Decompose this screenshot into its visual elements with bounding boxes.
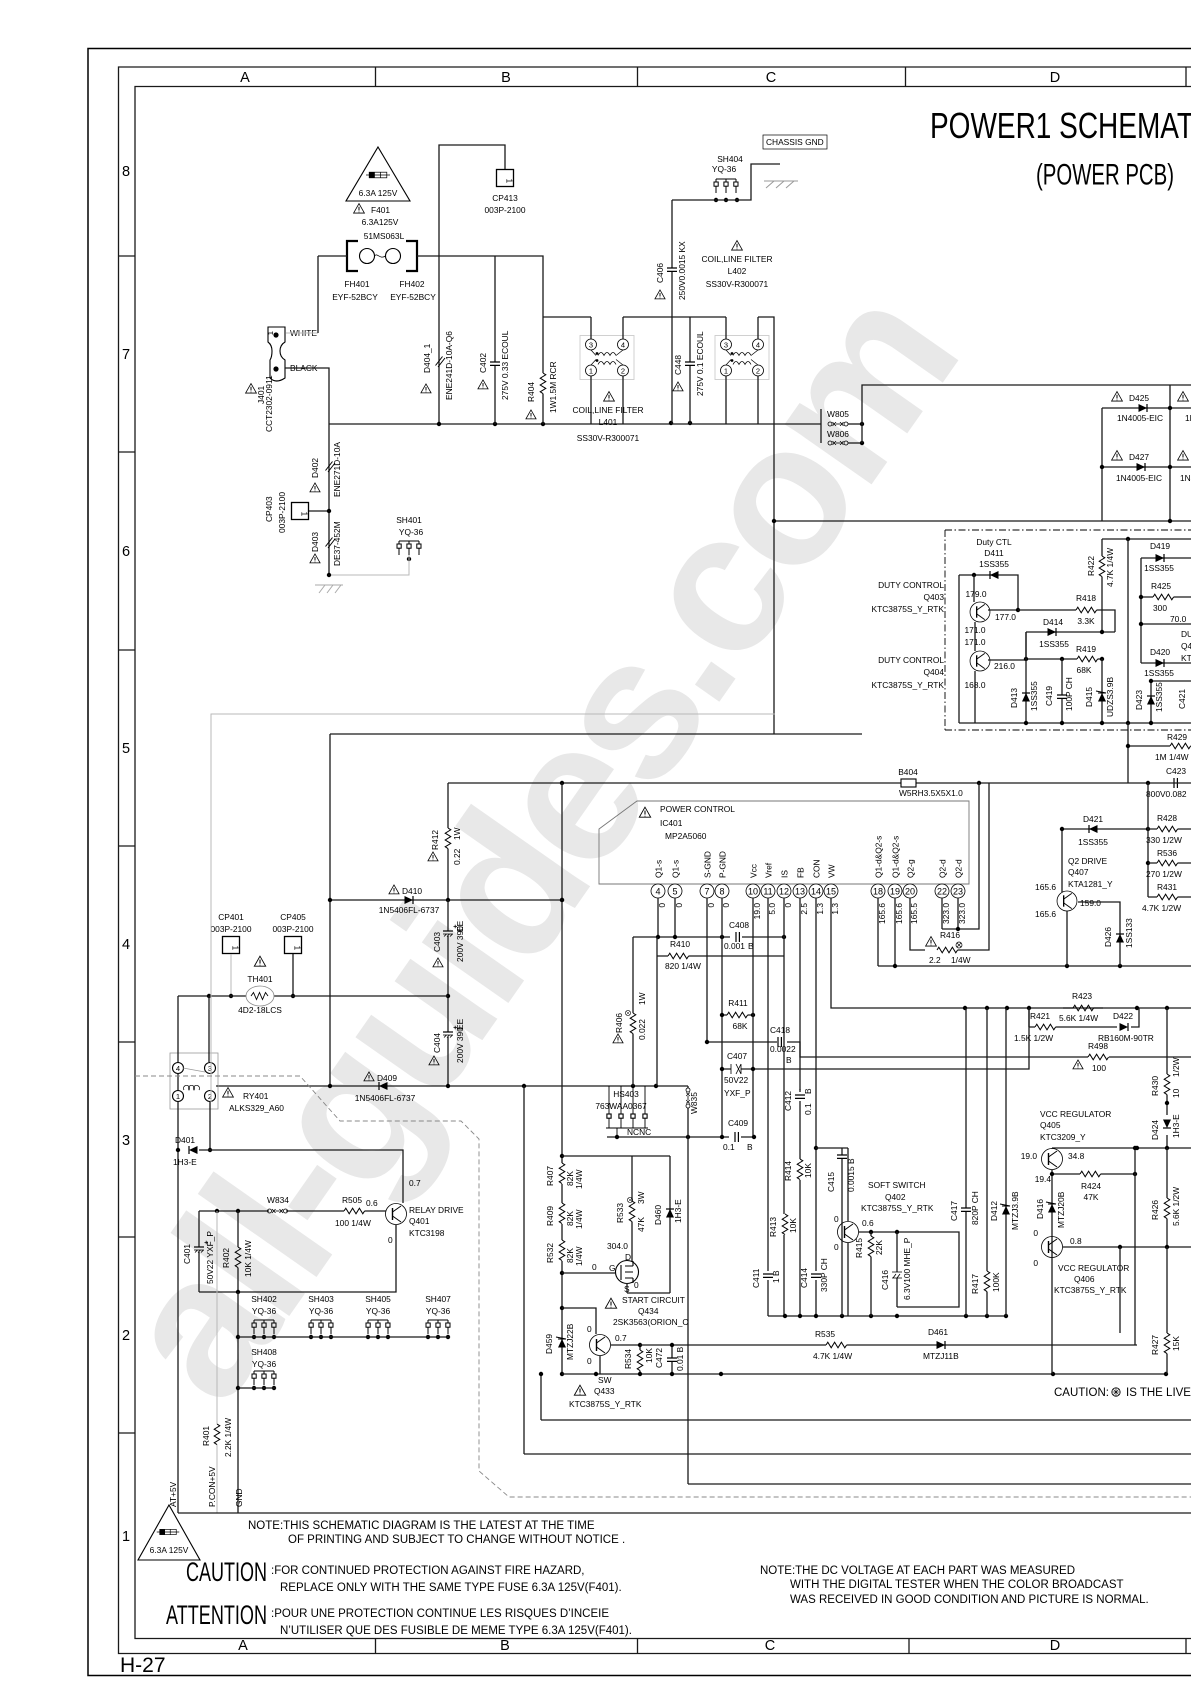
connector CP401 (223, 937, 240, 954)
fuse rating triangle bottom left (138, 1505, 200, 1560)
svg-text:CAUTION:: CAUTION: (1054, 1387, 1109, 1399)
svg-text:FH401: FH401 (344, 279, 369, 289)
svg-text:C404: C404 (432, 1033, 442, 1053)
svg-text:1SS355: 1SS355 (1039, 639, 1069, 649)
svg-text:ATTENTION: ATTENTION (166, 1600, 267, 1630)
svg-text:1SS355: 1SS355 (1154, 682, 1164, 712)
wire soft bus (768, 1315, 1006, 1317)
pin 18 Q1-d&Q2-s (871, 884, 885, 898)
wire pin22/23 join (942, 783, 979, 929)
svg-text:Q2-d: Q2-d (954, 859, 964, 878)
svg-text:100 1/4W: 100 1/4W (335, 1218, 371, 1228)
svg-text:50V22: 50V22 (724, 1075, 749, 1085)
wire hot rail down (774, 520, 1191, 522)
svg-text:Q4: Q4 (1181, 641, 1191, 651)
diode D425 (1102, 385, 1191, 521)
svg-text:EYF-52BCY: EYF-52BCY (332, 292, 378, 302)
diode D460 (627, 1156, 670, 1293)
label START CIRCUIT (605, 1298, 616, 1308)
svg-text:YQ-36: YQ-36 (252, 1359, 277, 1369)
jumper W805 (820, 409, 822, 443)
transistor Q406 (1042, 1237, 1063, 1258)
svg-text:R412: R412 (430, 830, 440, 850)
svg-text:4: 4 (176, 1064, 180, 1073)
transistor Q401 relay drive (386, 1204, 407, 1225)
ground symbol (315, 585, 343, 593)
svg-text:179.0: 179.0 (966, 589, 987, 599)
svg-text:L402: L402 (728, 266, 747, 276)
zener D412 (1005, 1008, 1007, 1316)
svg-text:003P-2100: 003P-2100 (277, 492, 287, 533)
svg-text:0: 0 (587, 1356, 592, 1366)
svg-text:L401: L401 (599, 417, 618, 427)
svg-text:47K: 47K (1084, 1192, 1099, 1202)
svg-text:YQ-36: YQ-36 (309, 1306, 334, 1316)
resistor R415 (870, 1232, 872, 1316)
svg-text:C403: C403 (432, 932, 442, 952)
svg-text:11: 11 (763, 887, 772, 897)
svg-text:R401: R401 (201, 1426, 211, 1446)
svg-text:R421: R421 (1030, 1011, 1050, 1021)
wire relay drive top (199, 1150, 403, 1203)
svg-text:10K: 10K (788, 1218, 798, 1233)
resistor R429 (1128, 723, 1191, 746)
frame column ticks bottom (376, 1639, 1187, 1654)
svg-text:SH404: SH404 (717, 154, 743, 164)
resistor R422 (1101, 539, 1103, 632)
svg-text:RELAY DRIVE: RELAY DRIVE (409, 1205, 464, 1215)
svg-text:C415: C415 (826, 1172, 836, 1192)
svg-text:D422: D422 (1113, 1011, 1133, 1021)
svg-text:B: B (747, 1142, 753, 1152)
svg-text:34.8: 34.8 (1068, 1151, 1085, 1161)
svg-text:0.1: 0.1 (723, 1142, 735, 1152)
svg-text:SH403: SH403 (308, 1294, 334, 1304)
svg-text:0.01 B: 0.01 B (675, 1346, 685, 1371)
svg-text:ENE241D-10A-Q6: ENE241D-10A-Q6 (444, 331, 454, 400)
jumper W834 (268, 1209, 288, 1213)
svg-text:Q1-d&Q2-s: Q1-d&Q2-s (874, 836, 884, 878)
svg-text:C419: C419 (1044, 686, 1054, 706)
svg-text:MTZJ11B: MTZJ11B (923, 1351, 959, 1361)
svg-text:Q401: Q401 (409, 1216, 430, 1226)
svg-text:MTZJ20B: MTZJ20B (1056, 1191, 1066, 1228)
zener D416 (1046, 1202, 1056, 1213)
wire R410 branch down (656, 956, 658, 1086)
svg-text:820 1/4W: 820 1/4W (665, 961, 701, 971)
svg-text:NOTE:THIS SCHEMATIC DIAGRAM IS: NOTE:THIS SCHEMATIC DIAGRAM IS THE LATES… (248, 1520, 595, 1532)
svg-text:3: 3 (122, 1133, 130, 1149)
label L402 (732, 241, 743, 251)
svg-text:Q404: Q404 (924, 667, 945, 677)
svg-text:R407: R407 (545, 1166, 555, 1186)
label J401 (246, 384, 257, 394)
svg-text:6.3A125V: 6.3A125V (362, 217, 399, 227)
wire pin4/5 net (633, 898, 784, 937)
svg-text:D419: D419 (1150, 541, 1170, 551)
diode D425b cut (1178, 392, 1189, 402)
transistor Q402 (838, 1222, 859, 1243)
resistor R412 (447, 783, 449, 900)
svg-text:1W: 1W (637, 992, 647, 1005)
svg-text:P-GND: P-GND (718, 851, 728, 878)
wire pin18/19 (878, 898, 1191, 966)
svg-text:C414: C414 (799, 1268, 809, 1288)
label POWER CONTROL (639, 807, 650, 817)
svg-text:A: A (238, 1638, 248, 1654)
coil line filter L401 (580, 336, 634, 380)
resistor R417 (986, 1008, 988, 1316)
resistor R534 (639, 1345, 641, 1374)
svg-text:0: 0 (1033, 1258, 1038, 1268)
svg-text:YQ-36: YQ-36 (399, 527, 424, 537)
svg-text:R413: R413 (768, 1217, 778, 1237)
zener D459 (556, 1337, 566, 1348)
svg-text:1N4005-EIC: 1N4005-EIC (1117, 413, 1163, 423)
svg-text:FB: FB (796, 867, 806, 878)
mosfet Q434 start (616, 1261, 639, 1284)
transistor Q403 (970, 602, 990, 622)
svg-text:70.0: 70.0 (1170, 614, 1187, 624)
resistor R535 (826, 1342, 847, 1348)
svg-text:SH401: SH401 (396, 515, 422, 525)
svg-text:165.6: 165.6 (1035, 882, 1056, 892)
wire SH401 to ground (329, 555, 409, 575)
wire bottom rail at+5v (178, 1512, 1191, 1514)
svg-text:D413: D413 (1009, 688, 1019, 708)
svg-text:WAS RECEIVED IN GOOD CONDITION: WAS RECEIVED IN GOOD CONDITION AND PICTU… (790, 1594, 1149, 1606)
svg-text:4: 4 (655, 887, 660, 897)
svg-text:KT: KT (1181, 653, 1191, 663)
relay RY401 (170, 1053, 218, 1109)
svg-text:100: 100 (1092, 1063, 1106, 1073)
svg-text:C406: C406 (655, 263, 665, 283)
svg-text:R425: R425 (1151, 581, 1171, 591)
svg-text:1/4W: 1/4W (574, 1209, 584, 1229)
svg-text:Q406: Q406 (1074, 1274, 1095, 1284)
wire rail2 (541, 1374, 1191, 1420)
svg-text:1SS355: 1SS355 (1029, 681, 1039, 711)
svg-text:50V22 YXF_P: 50V22 YXF_P (205, 1231, 215, 1284)
svg-text:10K: 10K (803, 1163, 813, 1178)
svg-text:NOTE:THE DC VOLTAGE AT EACH PA: NOTE:THE DC VOLTAGE AT EACH PART WAS MEA… (760, 1565, 1075, 1577)
wire base chain (199, 1210, 386, 1212)
svg-text:Q407: Q407 (1068, 867, 1089, 877)
fusible link B404 (448, 782, 1191, 784)
svg-text:1SS355: 1SS355 (1144, 563, 1174, 573)
svg-text:A: A (240, 70, 250, 86)
wire rail4 (688, 1483, 1191, 1485)
svg-text:800V0.082: 800V0.082 (1146, 789, 1187, 799)
svg-text:Q403: Q403 (924, 592, 945, 602)
svg-text:SOFT SWITCH: SOFT SWITCH (868, 1180, 926, 1190)
svg-text:H-27: H-27 (120, 1654, 166, 1677)
capacitor C416 (896, 1232, 898, 1307)
svg-text:0.8: 0.8 (1070, 1236, 1082, 1246)
wire drive emitter loop (199, 1225, 396, 1292)
svg-text:275V 0.1 ECOUL: 275V 0.1 ECOUL (695, 331, 705, 396)
wire duty right (1141, 623, 1191, 625)
svg-text:304.0: 304.0 (607, 1241, 628, 1251)
svg-text:KTC3875S_Y_RTK: KTC3875S_Y_RTK (872, 680, 945, 690)
svg-text:2SK3563(ORION_C: 2SK3563(ORION_C (613, 1317, 688, 1327)
wire line-filter top (543, 317, 774, 734)
svg-text:7: 7 (122, 347, 130, 363)
svg-text:DUTY CONTROL: DUTY CONTROL (878, 655, 944, 665)
svg-text:0.1: 0.1 (803, 1103, 813, 1115)
svg-text:R429: R429 (1167, 732, 1187, 742)
wire pin13 (799, 898, 801, 1316)
svg-text:D: D (625, 1252, 631, 1262)
resistor R411 (722, 1014, 753, 1016)
label L401 (604, 392, 615, 402)
svg-text:R409: R409 (545, 1206, 555, 1226)
svg-text:5: 5 (122, 741, 130, 757)
diode D424 (1166, 1103, 1168, 1148)
svg-text:165.6: 165.6 (1035, 909, 1056, 919)
svg-text:Q1-s: Q1-s (654, 860, 664, 878)
chassis ground hatch (764, 181, 798, 188)
resistor R427 (1166, 1247, 1168, 1374)
svg-text:UDZS3.9B: UDZS3.9B (1105, 677, 1115, 717)
svg-text:SH407: SH407 (425, 1294, 451, 1304)
coil line filter L402 (715, 336, 769, 380)
svg-text:R406: R406 (614, 1013, 624, 1033)
wire rect block left (330, 733, 862, 735)
svg-text:4D2-18LCS: 4D2-18LCS (238, 1005, 282, 1015)
svg-text:1SS133: 1SS133 (1124, 918, 1134, 948)
label RY401 (223, 1088, 234, 1098)
svg-text:216.0: 216.0 (994, 661, 1015, 671)
svg-text:D: D (1050, 70, 1060, 86)
diode D421 (1089, 825, 1098, 833)
resistor R426 (1120, 1148, 1167, 1333)
wire white lead (286, 332, 318, 334)
svg-text:1M 1/4W: 1M 1/4W (1155, 752, 1189, 762)
transistor Q407 (1057, 891, 1077, 911)
svg-text:NCNC: NCNC (627, 1127, 651, 1137)
svg-text:19.4: 19.4 (1035, 1174, 1052, 1184)
svg-text:IC401: IC401 (660, 818, 683, 828)
svg-text:1: 1 (176, 1092, 180, 1101)
svg-text:KTC3875S_Y_RTK: KTC3875S_Y_RTK (861, 1203, 934, 1213)
IC401 power control box (599, 801, 969, 884)
svg-text:200V 390: 200V 390 (455, 1027, 465, 1063)
svg-text:10K: 10K (644, 1348, 654, 1363)
svg-text:D411: D411 (984, 548, 1004, 558)
svg-text:B: B (500, 1638, 510, 1654)
svg-text:R402: R402 (221, 1248, 231, 1268)
svg-text:R536: R536 (1157, 848, 1177, 858)
svg-text:OF PRINTING AND SUBJECT TO CHA: OF PRINTING AND SUBJECT TO CHANGE WITHOU… (288, 1534, 625, 1546)
capacitor C409 (735, 1132, 738, 1142)
diode D423 (1151, 681, 1191, 723)
svg-text:Q434: Q434 (638, 1306, 659, 1316)
svg-text:Q2-d: Q2-d (938, 859, 948, 878)
svg-text:0: 0 (587, 1324, 592, 1334)
diode D420 (1141, 662, 1191, 664)
svg-text:275V 0.33 ECOUL: 275V 0.33 ECOUL (500, 330, 510, 400)
wire rectifier feed (862, 385, 1191, 443)
svg-text:R418: R418 (1076, 593, 1096, 603)
wire duty top rail (1102, 538, 1191, 540)
svg-text:Q1-s: Q1-s (671, 860, 681, 878)
svg-text:KTC3875S_Y_RTK: KTC3875S_Y_RTK (569, 1399, 642, 1409)
resistor R421 (1029, 1008, 1117, 1027)
svg-text:MTZJ3.9B: MTZJ3.9B (1010, 1191, 1020, 1230)
svg-text:D425: D425 (1129, 393, 1149, 403)
svg-text:300: 300 (1153, 603, 1167, 613)
svg-text:CCT2302-0911: CCT2302-0911 (264, 375, 274, 432)
wire pin14 (815, 898, 817, 1316)
transistor Q404 (970, 651, 990, 671)
svg-text:YQ-36: YQ-36 (426, 1306, 451, 1316)
svg-text:R427: R427 (1150, 1335, 1160, 1355)
svg-text:4.7K 1/2W: 4.7K 1/2W (1142, 903, 1181, 913)
svg-text:R414: R414 (783, 1161, 793, 1181)
svg-text:D402: D402 (310, 458, 320, 478)
diode D461 (847, 1344, 1137, 1346)
svg-text:R428: R428 (1157, 813, 1177, 823)
svg-text:D415: D415 (1084, 687, 1094, 707)
svg-text:Q405: Q405 (1040, 1120, 1061, 1130)
capacitor C414 (810, 1271, 822, 1280)
svg-text:1: 1 (266, 331, 275, 335)
svg-text:1: 1 (122, 1529, 130, 1545)
capacitor C419 (1061, 659, 1063, 723)
svg-text:D427: D427 (1129, 452, 1149, 462)
svg-text:N’UTILISER QUE DES FUSIBLE DE: N’UTILISER QUE DES FUSIBLE DE MEME TYPE … (280, 1625, 632, 1637)
resistor R407 (559, 1163, 565, 1184)
svg-text:CP401: CP401 (218, 912, 244, 922)
svg-text:YQ-36: YQ-36 (712, 164, 737, 174)
svg-text:C407: C407 (727, 1051, 747, 1061)
svg-text:W835: W835 (689, 1092, 699, 1114)
svg-text:Q2-g: Q2-g (906, 859, 916, 878)
svg-text:SW: SW (598, 1375, 612, 1385)
label F401 (354, 204, 365, 214)
svg-text:COIL,LINE FILTER: COIL,LINE FILTER (572, 405, 643, 415)
svg-text:POWER CONTROL: POWER CONTROL (660, 804, 735, 814)
svg-text:AT+5V: AT+5V (168, 1481, 178, 1507)
svg-text:Duty CTL: Duty CTL (976, 537, 1012, 547)
diode D413 (1025, 632, 1027, 723)
svg-text:D: D (1050, 1638, 1060, 1654)
svg-text:CP413: CP413 (492, 193, 518, 203)
resistor R410 (657, 937, 784, 956)
svg-text:4.7K 1/4W: 4.7K 1/4W (1105, 548, 1115, 587)
pin 19 Q1-d&Q2-s (888, 884, 902, 898)
svg-text:1/4W: 1/4W (574, 1246, 584, 1266)
wire q403 chain (974, 575, 975, 723)
svg-text:DU: DU (1181, 629, 1191, 639)
wire pin12 (783, 898, 785, 1316)
svg-text:B: B (803, 1088, 813, 1094)
svg-text:YQ-36: YQ-36 (366, 1306, 391, 1316)
svg-text:100K: 100K (991, 1272, 1001, 1292)
svg-text:22K: 22K (874, 1240, 884, 1255)
pin 22 Q2-d (935, 884, 949, 898)
svg-text:TH401: TH401 (247, 974, 272, 984)
svg-text:1/4W: 1/4W (951, 955, 971, 965)
svg-text:0.022: 0.022 (637, 1019, 647, 1040)
svg-text:10: 10 (1171, 1088, 1181, 1098)
svg-text:D426: D426 (1103, 927, 1113, 947)
resistor R416 (926, 937, 937, 947)
zener D415 (1101, 659, 1103, 723)
svg-text:CON: CON (812, 859, 822, 878)
svg-text:DE37-452M: DE37-452M (332, 521, 342, 566)
svg-text:14: 14 (811, 887, 821, 897)
connector CP405 (285, 937, 302, 954)
resistor R413 (782, 1214, 788, 1235)
svg-text:RY401: RY401 (243, 1091, 269, 1101)
pin 15 VW (824, 884, 838, 898)
svg-text:C448: C448 (673, 355, 683, 375)
frame column ticks top (376, 67, 1187, 87)
svg-text:D401: D401 (175, 1135, 195, 1145)
svg-text:D461: D461 (928, 1327, 948, 1337)
svg-text:IS THE LIVE CO: IS THE LIVE CO (1126, 1387, 1191, 1399)
capacitor C406 chain (671, 200, 673, 424)
capacitor C411 (763, 1274, 773, 1277)
svg-text:C: C (766, 70, 776, 86)
svg-text:3W: 3W (636, 1191, 646, 1204)
svg-text:0: 0 (834, 1214, 839, 1224)
svg-text:23: 23 (953, 887, 963, 897)
svg-text:177.0: 177.0 (995, 612, 1016, 622)
svg-text:2.2: 2.2 (929, 955, 941, 965)
svg-text:W806: W806 (827, 429, 849, 439)
svg-text:B404: B404 (898, 767, 918, 777)
svg-text:IS: IS (780, 870, 790, 878)
svg-text:R426: R426 (1150, 1200, 1160, 1220)
svg-text:WITH THE DIGITAL TESTER WHEN T: WITH THE DIGITAL TESTER WHEN THE COLOR B… (790, 1579, 1124, 1591)
svg-text:D421: D421 (1083, 814, 1103, 824)
svg-text:10K 1/4W: 10K 1/4W (243, 1240, 253, 1277)
pin 14 CON (809, 884, 823, 898)
wire rail3 (524, 1086, 1191, 1454)
svg-text:1N: 1N (1185, 413, 1191, 423)
svg-text:R415: R415 (854, 1238, 864, 1258)
svg-text:Q2 DRIVE: Q2 DRIVE (1068, 856, 1108, 866)
svg-text:68K: 68K (733, 1021, 748, 1031)
svg-text:1SS355: 1SS355 (979, 559, 1009, 569)
svg-text:C423: C423 (1166, 766, 1186, 776)
svg-text:0.001: 0.001 (724, 941, 745, 951)
svg-text:0.7: 0.7 (615, 1333, 627, 1343)
svg-text:W834: W834 (267, 1195, 289, 1205)
svg-text:19: 19 (890, 887, 900, 897)
resistor R498 (1088, 1054, 1109, 1060)
gray region box (211, 714, 775, 1102)
svg-text:CP403: CP403 (264, 496, 274, 522)
svg-text:7: 7 (704, 887, 709, 897)
svg-text:1/2W: 1/2W (1171, 1057, 1181, 1077)
svg-text:330P CH: 330P CH (819, 1258, 829, 1292)
svg-text:8: 8 (719, 887, 724, 897)
svg-text:Vcc: Vcc (749, 864, 759, 878)
svg-text:820P CH: 820P CH (970, 1191, 980, 1225)
resistor R424 (1080, 1171, 1101, 1177)
capacitor C448 (689, 317, 691, 424)
diode D419 (1141, 558, 1191, 663)
svg-text:270 1/2W: 270 1/2W (1146, 869, 1182, 879)
svg-text:R430: R430 (1150, 1076, 1160, 1096)
resistor R402 (237, 1211, 239, 1292)
diode D411 (959, 575, 1018, 723)
svg-text:2: 2 (122, 1328, 130, 1344)
